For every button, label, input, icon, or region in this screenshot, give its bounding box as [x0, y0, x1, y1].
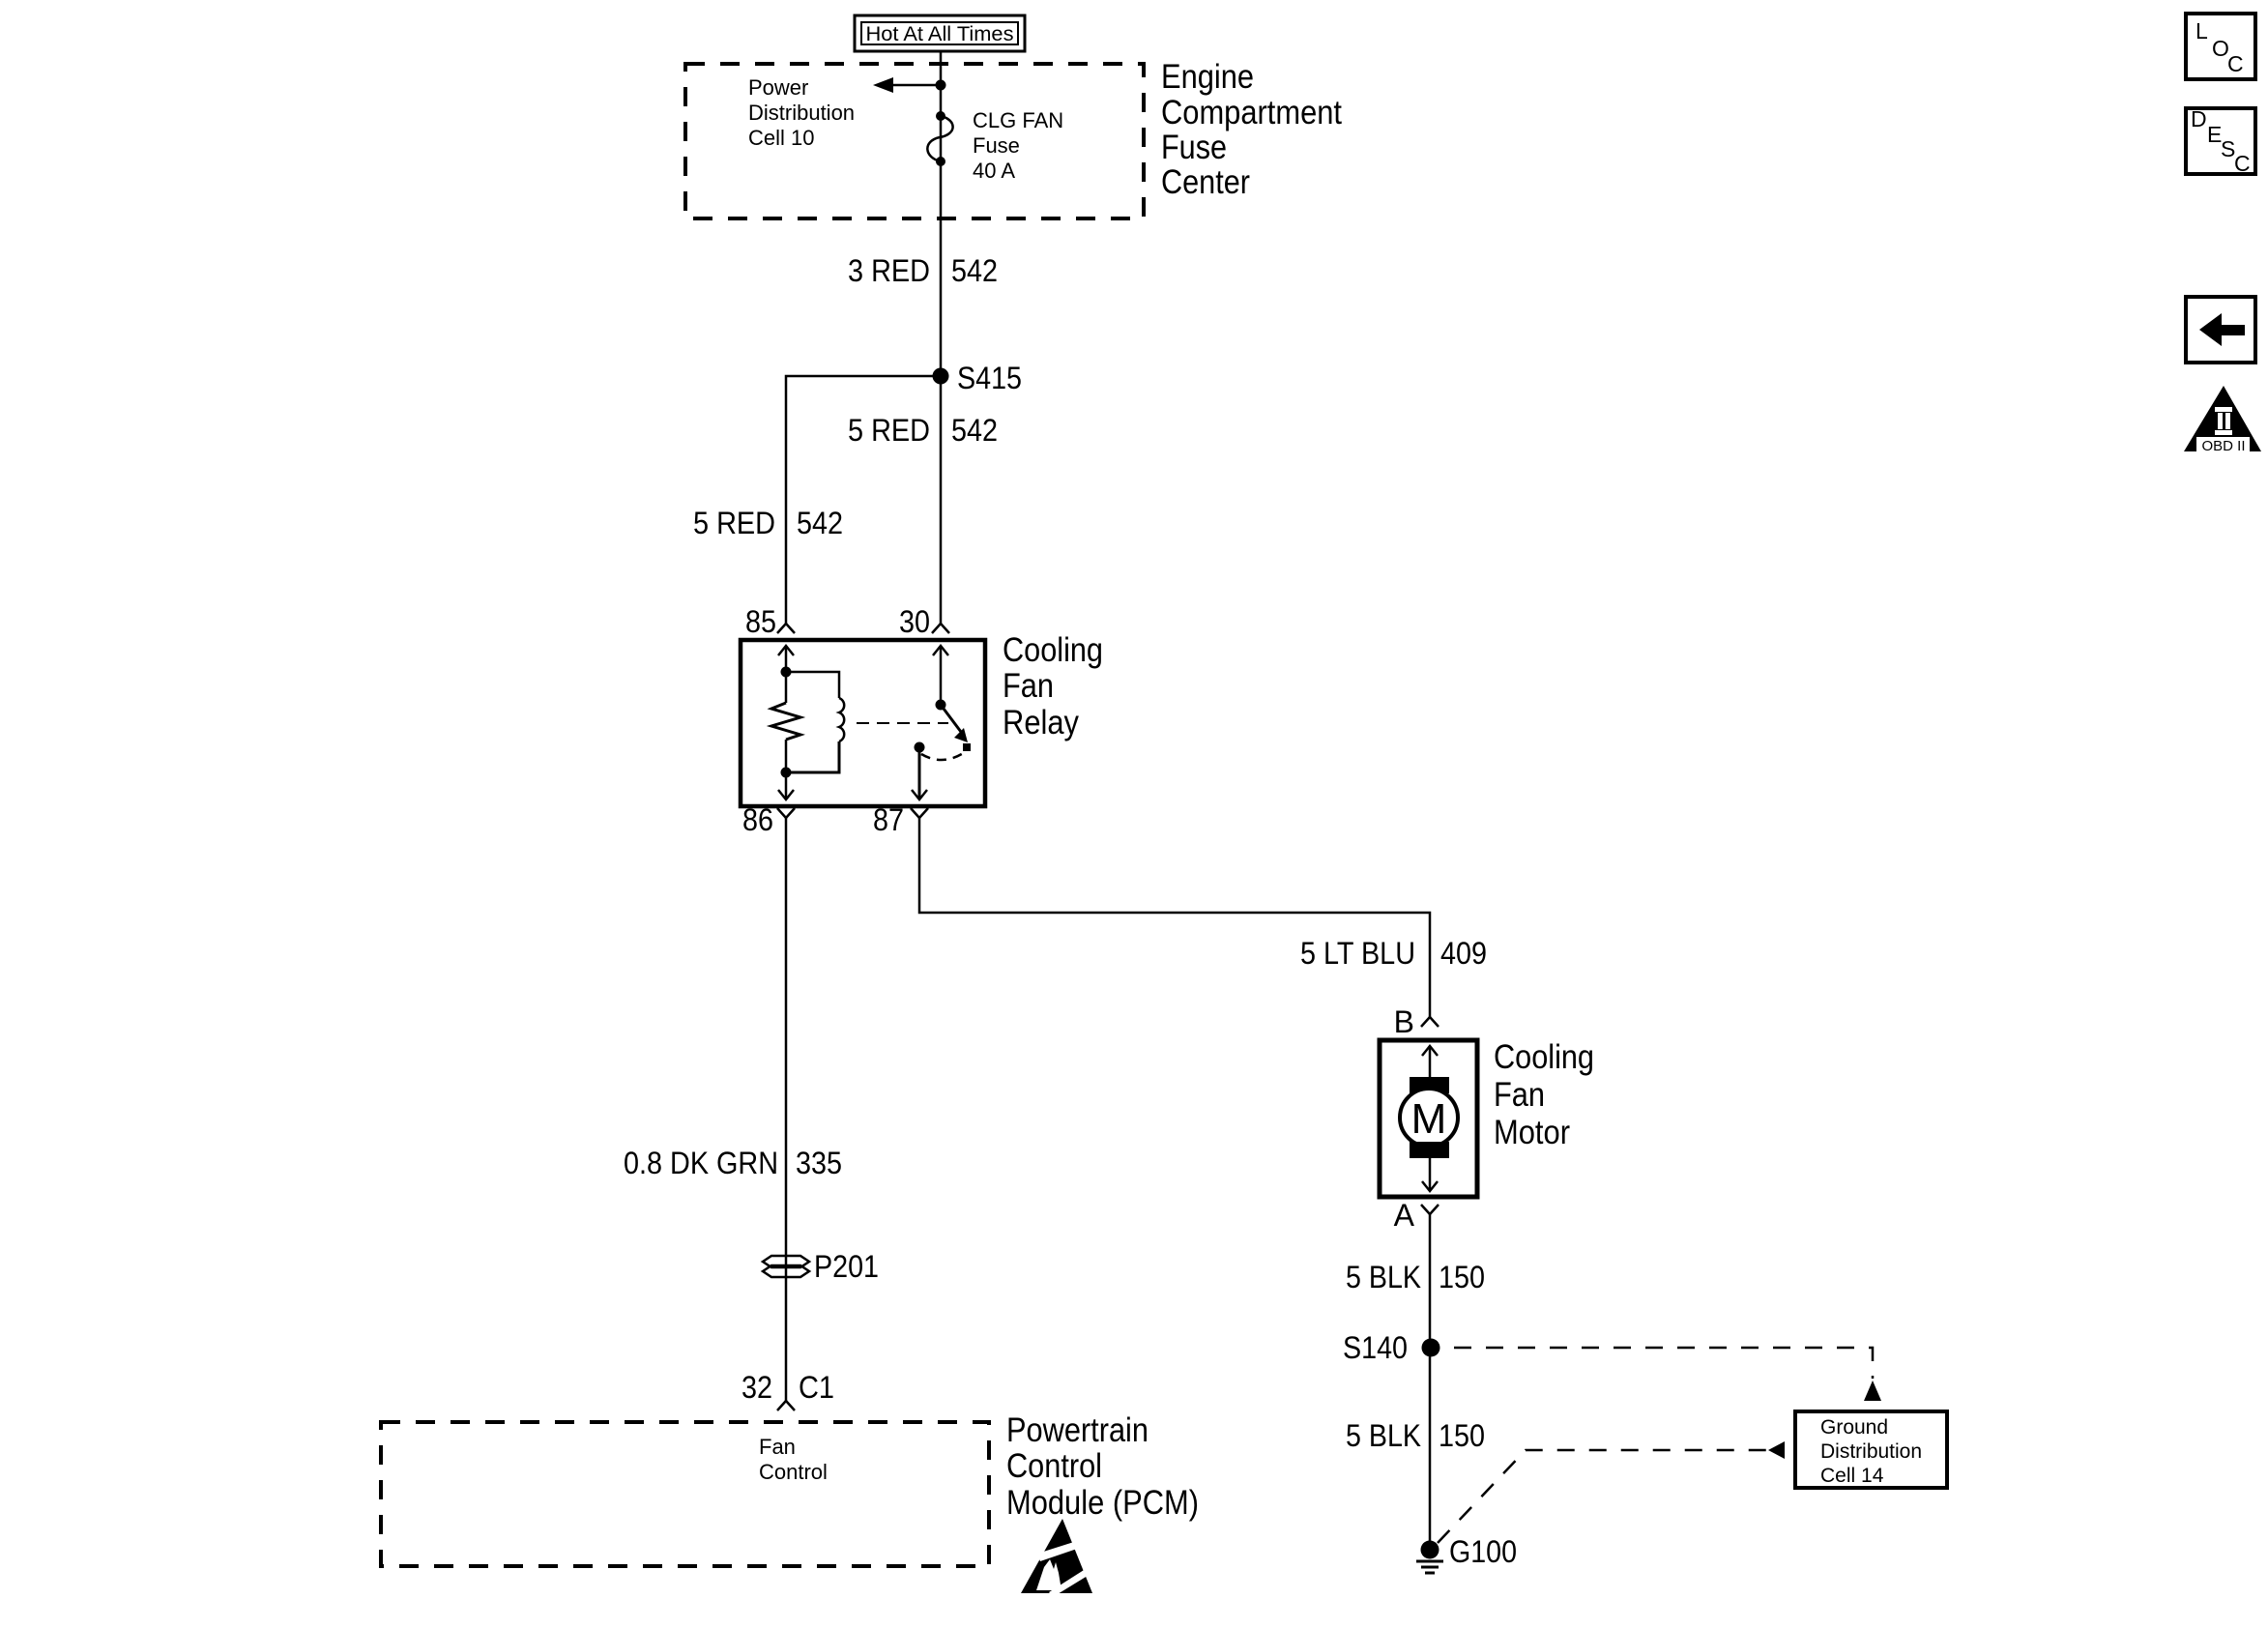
label: CLG FAN Fuse 40 A — [973, 108, 1063, 183]
svg-text:150: 150 — [1439, 1418, 1485, 1453]
svg-text:Powertrain: Powertrain — [1006, 1411, 1149, 1449]
wire: motor pin A to G100 — [1429, 1214, 1432, 1544]
svg-text:S415: S415 — [957, 361, 1022, 395]
svg-text:G100: G100 — [1449, 1534, 1517, 1569]
svg-text:87: 87 — [873, 802, 904, 837]
ESD sensitivity symbol — [1021, 1519, 1095, 1597]
dashed wire: S140 to Ground Distribution — [1454, 1348, 1881, 1401]
relay node (top junction) — [781, 667, 792, 678]
svg-text:150: 150 — [1439, 1260, 1485, 1294]
pin 86 — [742, 802, 795, 837]
svg-text:0.8 DK GRN: 0.8 DK GRN — [624, 1146, 778, 1180]
svg-text:Fuse: Fuse — [973, 133, 1020, 158]
svg-text:Cell 10: Cell 10 — [748, 126, 814, 150]
motor M1 internals — [1400, 1046, 1458, 1191]
svg-text:5 LT BLU: 5 LT BLU — [1300, 936, 1415, 971]
wire label: 0.8 DK GRN 335 — [624, 1146, 842, 1180]
dashed link: coil to switch — [857, 722, 948, 724]
svg-text:85: 85 — [745, 604, 776, 639]
fuse block box: Engine Compartment Fuse Center (dashed) — [685, 64, 1144, 218]
svg-text:M: M — [1411, 1095, 1447, 1143]
svg-text:Fuse: Fuse — [1161, 129, 1227, 166]
pin 32 C1 — [741, 1370, 834, 1410]
svg-text:32: 32 — [741, 1370, 772, 1405]
label: Power Distribution Cell 10 — [748, 75, 855, 150]
svg-text:335: 335 — [796, 1146, 842, 1180]
relay switch blade — [941, 705, 971, 751]
relay coil output arrow (pin 86 side) — [778, 772, 794, 799]
relay coil — [786, 672, 844, 772]
svg-text:B: B — [1394, 1004, 1414, 1039]
svg-text:Fan: Fan — [759, 1435, 796, 1459]
label: Fan Control — [759, 1435, 828, 1484]
svg-text:C: C — [2234, 151, 2251, 176]
label: Engine Compartment Fuse Center — [1161, 58, 1342, 201]
svg-text:409: 409 — [1440, 936, 1487, 971]
svg-text:542: 542 — [951, 253, 998, 288]
splice S415 — [933, 361, 1023, 395]
svg-text:Cell 14: Cell 14 — [1820, 1465, 1884, 1487]
PCM box (dashed): Powertrain Control Module — [381, 1422, 989, 1566]
relay switch NO contact to pin 87 — [912, 742, 927, 800]
motor box: Cooling Fan Motor — [1380, 1040, 1477, 1197]
wire: battery feed vertical (Hot At All Times to relay pin 30) — [940, 51, 943, 625]
inline connector P201 — [763, 1249, 879, 1284]
icon: OBD II — [2184, 386, 2261, 454]
svg-text:Control: Control — [759, 1460, 828, 1484]
svg-text:Cooling: Cooling — [1494, 1038, 1594, 1076]
svg-text:Distribution: Distribution — [1820, 1440, 1922, 1463]
svg-text:S140: S140 — [1343, 1330, 1408, 1365]
splice S140 — [1343, 1330, 1440, 1365]
wire label: 5 BLK 150 (upper) — [1346, 1260, 1485, 1294]
icon: back arrow — [2186, 297, 2255, 363]
icon: LOC — [2186, 14, 2255, 79]
svg-text:CLG FAN: CLG FAN — [973, 108, 1063, 132]
svg-text:Center: Center — [1161, 163, 1250, 201]
wire label: 5 BLK 150 (lower) — [1346, 1418, 1485, 1453]
label: Cooling Fan Relay — [1003, 631, 1103, 741]
svg-text:OBD II: OBD II — [2201, 438, 2245, 454]
relay box: Cooling Fan Relay — [741, 640, 985, 806]
pin A — [1394, 1198, 1439, 1233]
relay resistor (parallel with coil) — [771, 672, 800, 772]
label: Powertrain Control Module (PCM) — [1006, 1411, 1199, 1522]
svg-text:40 A: 40 A — [973, 159, 1015, 183]
pin 30 — [899, 604, 949, 639]
svg-text:5 RED: 5 RED — [693, 506, 775, 540]
svg-text:Engine: Engine — [1161, 58, 1254, 96]
wire: pin 87 to motor pin B — [919, 818, 1430, 1017]
svg-text:C: C — [2227, 51, 2244, 76]
icon: DESC — [2186, 106, 2255, 176]
wire label: 5 RED 542 (left branch) — [693, 506, 843, 540]
svg-text:Module (PCM): Module (PCM) — [1006, 1484, 1199, 1522]
svg-text:L: L — [2195, 18, 2208, 44]
label: Cooling Fan Motor — [1494, 1038, 1594, 1151]
svg-text:Relay: Relay — [1003, 704, 1079, 741]
node box: Ground Distribution Cell 14 — [1795, 1411, 1947, 1488]
fuse F: CLG FAN Fuse 40 A — [927, 111, 952, 166]
svg-text:542: 542 — [951, 413, 998, 448]
svg-text:Control: Control — [1006, 1447, 1102, 1485]
svg-text:5 BLK: 5 BLK — [1346, 1260, 1421, 1294]
wire label: 5 LT BLU 409 — [1300, 936, 1487, 971]
dashed wire: G100 to Ground Distribution — [1438, 1441, 1785, 1543]
relay switch common arrow (pin 30 side) — [933, 646, 948, 711]
node junction + arrow to Power Distribution — [873, 77, 946, 93]
svg-text:Fan: Fan — [1003, 667, 1054, 705]
svg-text:A: A — [1394, 1198, 1415, 1233]
pin B — [1394, 1004, 1439, 1039]
dashed arc: contact travel — [921, 752, 965, 760]
svg-text:Power: Power — [748, 75, 808, 100]
svg-text:Fan: Fan — [1494, 1076, 1545, 1114]
pin 85 — [745, 604, 795, 639]
svg-text:5 BLK: 5 BLK — [1346, 1418, 1421, 1453]
ground G100 — [1416, 1534, 1517, 1573]
relay coil input arrow (pin 85 side) — [778, 646, 794, 672]
svg-text:Ground: Ground — [1820, 1416, 1888, 1439]
svg-text:3 RED: 3 RED — [848, 253, 930, 288]
svg-text:D: D — [2191, 106, 2207, 131]
svg-text:P201: P201 — [814, 1249, 879, 1284]
wire: pin 86 to PCM pin 32 — [785, 818, 788, 1401]
wire label: 5 RED 542 (right branch) — [848, 413, 998, 448]
wire: branch from S415 to relay pin 85 — [786, 376, 941, 625]
svg-text:Cooling: Cooling — [1003, 631, 1103, 669]
pin 87 — [873, 802, 928, 837]
svg-text:C1: C1 — [799, 1370, 834, 1405]
svg-text:5 RED: 5 RED — [848, 413, 930, 448]
wire label: 3 RED 542 — [848, 253, 998, 288]
node label box: Hot At All Times — [855, 15, 1025, 51]
svg-text:542: 542 — [797, 506, 843, 540]
svg-text:30: 30 — [899, 604, 930, 639]
svg-text:Distribution: Distribution — [748, 101, 855, 125]
svg-text:Hot At All Times: Hot At All Times — [866, 23, 1014, 45]
svg-text:Compartment: Compartment — [1161, 94, 1342, 131]
svg-text:Motor: Motor — [1494, 1114, 1570, 1151]
svg-text:86: 86 — [742, 802, 773, 837]
relay node (bottom junction) — [781, 768, 792, 778]
